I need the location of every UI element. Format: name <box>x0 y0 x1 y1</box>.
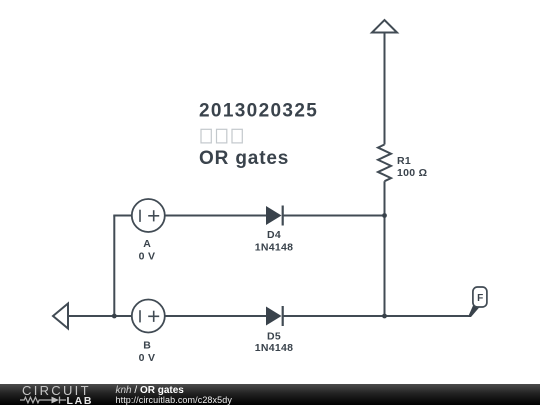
diode D4 <box>266 206 283 226</box>
wire: R1 bottom to bottom rail <box>384 181 386 316</box>
svg-text:1N4148: 1N4148 <box>255 342 294 354</box>
voltage source A <box>132 199 165 232</box>
svg-text:D4: D4 <box>267 229 281 241</box>
footer url <box>116 395 232 405</box>
footer title: knh / OR gates <box>116 385 184 396</box>
svg-text:100 Ω: 100 Ω <box>397 167 427 179</box>
flag F pole <box>468 305 480 317</box>
wire: left arrow to source B <box>68 315 132 317</box>
missing-glyph box 3 <box>232 129 242 143</box>
svg-text:F: F <box>477 293 483 304</box>
svg-text:1N4148: 1N4148 <box>255 241 294 253</box>
flag F box <box>473 287 487 307</box>
input flag (left arrow) <box>53 304 68 329</box>
voltage source B <box>132 300 165 333</box>
node junction dot (R1/D4 node) <box>382 213 387 218</box>
svg-text:2013020325: 2013020325 <box>199 101 318 122</box>
wire: source B to diode D5 <box>165 315 266 317</box>
diode D5 <box>266 306 283 326</box>
svg-text:R1: R1 <box>397 155 411 167</box>
node junction dot (bottom rail) <box>382 314 387 319</box>
wire: corner to source A <box>113 215 132 217</box>
CircuitLab logo squiggle (resistor + diode) <box>18 395 68 405</box>
node junction dot (left branch) <box>112 314 117 319</box>
wire: source A to diode D4 <box>165 215 266 217</box>
wire: D4 to node column <box>283 215 385 217</box>
wire: branch up from junction <box>113 216 115 317</box>
CircuitLab logo: LAB <box>67 395 94 405</box>
wire: power flag to R1 top <box>384 33 386 145</box>
svg-text:0 V: 0 V <box>139 251 156 263</box>
svg-text:0 V: 0 V <box>139 352 156 364</box>
missing-glyph box 1 <box>201 129 211 143</box>
svg-text:D5: D5 <box>267 331 281 343</box>
footer bar <box>0 384 540 405</box>
missing-glyph box 2 <box>217 129 227 143</box>
svg-text:OR gates: OR gates <box>199 148 289 169</box>
wire: D5 to flag F <box>283 315 469 317</box>
power flag (up arrow) <box>372 20 397 33</box>
resistor R1 <box>378 145 391 182</box>
svg-text:B: B <box>143 339 151 351</box>
svg-text:A: A <box>143 238 151 250</box>
CircuitLab logo: CIRCUIT <box>22 383 91 398</box>
